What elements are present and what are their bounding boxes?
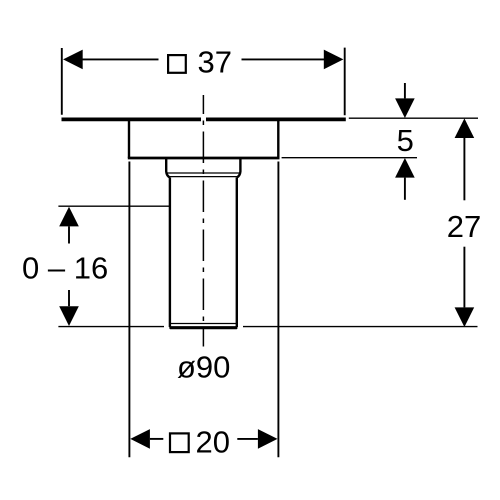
flange body bbox=[128, 120, 280, 158]
dimension 0-16: bottom reference line bbox=[58, 326, 164, 328]
dimension 20: right extension line bbox=[277, 162, 279, 458]
dimension 27: dimension line bbox=[463, 138, 465, 307]
dimension 0-16: down arrow bbox=[59, 306, 79, 326]
dimension 37: left arrow bbox=[63, 50, 83, 70]
svg-text:5: 5 bbox=[397, 123, 414, 158]
svg-text:20: 20 bbox=[196, 424, 230, 459]
dimension 5: upper leader bbox=[404, 83, 406, 98]
pipe bottom rim bbox=[171, 323, 236, 325]
dimension 37: dimension line bbox=[80, 58, 326, 60]
svg-text:0 – 16: 0 – 16 bbox=[22, 250, 108, 285]
dimension 20: right arrow bbox=[258, 429, 278, 449]
pipe walls bbox=[170, 178, 237, 328]
dimension 20: dimension line bbox=[150, 438, 258, 440]
dimension 20: left extension line bbox=[128, 162, 130, 458]
svg-text:27: 27 bbox=[447, 209, 481, 244]
centerline (dash-dot) bbox=[202, 95, 204, 347]
dimension 27: bottom extension line bbox=[243, 326, 478, 328]
dimension 20: square symbol bbox=[170, 433, 189, 452]
dimension 5: lower leader bbox=[404, 178, 406, 200]
socket rim lines bbox=[167, 173, 240, 177]
dimension 37: extension lines bbox=[62, 48, 345, 116]
dimension 5: bottom extension line bbox=[282, 157, 417, 159]
svg-text:ø90: ø90 bbox=[177, 349, 230, 384]
socket stub below flange bbox=[166, 158, 240, 178]
dimension 5: up arrow bbox=[395, 158, 415, 178]
dimension 5: top extension line bbox=[349, 117, 478, 119]
dimension 37: right arrow bbox=[324, 50, 344, 70]
dimension 27: up arrow bbox=[455, 118, 475, 138]
svg-text:37: 37 bbox=[198, 45, 232, 80]
dimension 5: down arrow bbox=[395, 98, 415, 118]
dimension 27: down arrow bbox=[455, 307, 475, 327]
dimension 0-16: top reference line bbox=[58, 205, 169, 207]
plate top surface (thick line, gap at centerline) bbox=[62, 118, 346, 122]
dimension 0-16: dimension line bbox=[68, 226, 70, 306]
dimension 0-16: up arrow bbox=[59, 207, 79, 227]
dimension 37: square symbol bbox=[168, 55, 186, 73]
dimension 20: left arrow bbox=[130, 429, 150, 449]
